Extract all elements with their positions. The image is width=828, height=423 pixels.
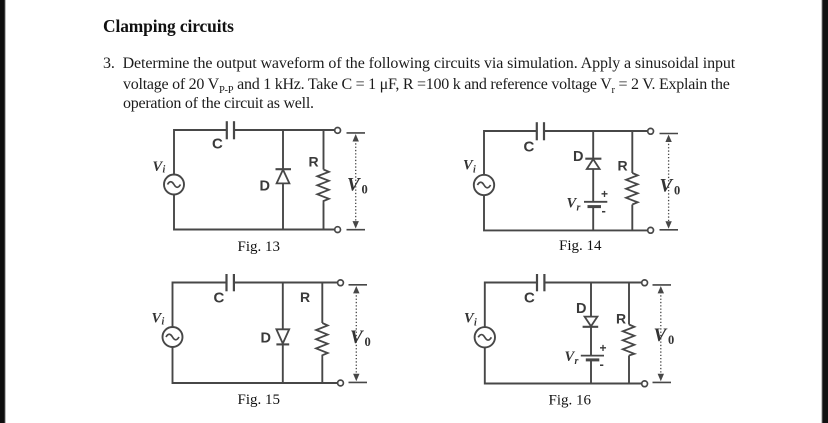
svg-text:D: D <box>260 179 270 195</box>
wire: Fig16 left/top <box>485 283 537 328</box>
terminal bottom (Fig16) <box>642 381 648 387</box>
svg-text:D: D <box>261 330 271 346</box>
wire: Fig14 diode to battery <box>592 169 594 201</box>
terminal bottom (Fig15) <box>338 380 344 386</box>
Vo measure (Fig15) <box>349 284 368 286</box>
wire: Fig13 left/top/bottom loop <box>174 130 226 175</box>
svg-text:0: 0 <box>362 183 368 197</box>
capacitor C (Fig13) <box>226 121 228 139</box>
svg-text:+: + <box>600 341 607 355</box>
wire: Fig13 left lower <box>174 195 335 230</box>
battery Vr (Fig14) <box>584 201 607 203</box>
wire: Fig14 resistor branch lower <box>631 205 633 231</box>
wire: Fig16 cap to terminal <box>545 282 641 284</box>
wire: Fig13 resistor branch upper <box>323 130 325 170</box>
svg-text:i: i <box>162 317 165 328</box>
resistor R (Fig15) <box>316 323 328 360</box>
resistor R (Fig13) <box>317 170 329 204</box>
svg-text:Fig. 13: Fig. 13 <box>238 239 281 255</box>
diode D (Fig14, pointing up) <box>585 158 601 160</box>
svg-text:0: 0 <box>365 335 371 349</box>
svg-text:0: 0 <box>674 184 680 198</box>
wire: Fig16 diode to battery <box>590 327 592 355</box>
paragraph line 2 <box>123 76 730 96</box>
capacitor C (Fig16) <box>536 274 538 291</box>
left black bar <box>0 0 6 423</box>
wire: Fig13 diode branch lower <box>282 183 284 229</box>
resistor R (Fig14) <box>626 173 638 205</box>
wire: Fig14 battery to bottom <box>592 207 594 230</box>
wire: Fig15 resistor branch upper <box>321 283 323 324</box>
terminal bottom (Fig14) <box>648 227 654 233</box>
source Vi (Fig15) <box>163 327 183 347</box>
svg-text:R: R <box>616 310 626 326</box>
svg-text:r: r <box>577 203 581 214</box>
svg-text:V: V <box>654 325 668 346</box>
svg-text:Fig. 14: Fig. 14 <box>559 238 602 254</box>
paragraph line 3 <box>123 95 314 113</box>
svg-text:-: - <box>600 357 604 372</box>
source Vi (Fig13) <box>164 175 184 195</box>
wire: Fig16 bottom <box>485 348 642 384</box>
svg-text:i: i <box>163 165 166 176</box>
wire: Fig16 resistor branch lower <box>628 356 630 384</box>
wire: Fig15 bottom <box>173 347 338 383</box>
source Vi (Fig14) <box>474 175 494 195</box>
terminal top (Fig16) <box>642 280 648 286</box>
diode D (Fig15, pointing down) <box>276 329 289 343</box>
capacitor C (Fig15) <box>225 274 227 291</box>
svg-text:0: 0 <box>668 333 674 347</box>
wire: Fig14 cap to terminal <box>545 130 648 132</box>
svg-text:C: C <box>214 289 225 306</box>
Vo measure (Fig16) <box>653 284 672 286</box>
wire: Fig15 diode branch lower <box>282 344 284 383</box>
svg-text:Fig. 15: Fig. 15 <box>238 392 281 408</box>
wire: Fig14 resistor branch upper <box>631 131 633 173</box>
svg-text:+: + <box>601 187 608 201</box>
svg-text:C: C <box>524 289 535 306</box>
wire: Fig16 battery to bottom <box>590 360 592 383</box>
title <box>103 16 234 37</box>
svg-text:-: - <box>602 203 606 218</box>
svg-text:V: V <box>347 175 361 196</box>
wire: Fig14 bottom <box>484 195 648 230</box>
svg-text:R: R <box>618 158 628 174</box>
wire: Fig13 resistor branch lower <box>323 204 325 230</box>
svg-text:D: D <box>576 301 586 317</box>
capacitor C (Fig14) <box>536 122 538 140</box>
wire: Fig14 left/top <box>484 131 536 175</box>
svg-text:V: V <box>660 176 674 197</box>
source Vi (Fig16) <box>475 327 495 347</box>
wire: Fig13 diode branch upper <box>282 130 284 169</box>
Vo measure (Fig14) <box>660 133 679 135</box>
wire: Fig14 diode branch upper <box>592 131 594 159</box>
diode D (Fig16, pointing down) <box>585 317 598 327</box>
wire: Fig15 diode branch upper <box>282 283 284 330</box>
battery Vr (Fig16) <box>581 355 604 357</box>
wire: Fig15 left/top <box>173 283 227 328</box>
terminal top (Fig14) <box>648 128 654 134</box>
diode D (Fig13, pointing up) <box>276 168 292 170</box>
resistor R (Fig16) <box>623 325 635 356</box>
Vo measure (Fig13) <box>347 132 366 134</box>
wire: Fig15 resistor branch lower <box>321 360 323 384</box>
svg-text:D: D <box>573 149 583 165</box>
wire: Fig16 diode branch upper <box>590 283 592 317</box>
svg-text:R: R <box>309 154 319 170</box>
terminal top (Fig13) <box>335 127 341 133</box>
svg-text:i: i <box>473 165 476 176</box>
wire: Fig13 cap to top-right terminal <box>235 129 335 131</box>
wire: Fig16 resistor branch upper <box>628 283 630 325</box>
svg-text:R: R <box>300 289 310 305</box>
paragraph line 1 <box>103 55 735 73</box>
svg-text:C: C <box>524 139 535 156</box>
right black bar <box>821 0 828 423</box>
svg-text:V: V <box>350 327 364 348</box>
svg-text:Fig. 16: Fig. 16 <box>549 393 592 409</box>
terminal bottom (Fig13) <box>335 227 341 233</box>
wire: Fig15 cap to terminal <box>235 282 338 284</box>
terminal top (Fig15) <box>338 280 344 286</box>
svg-text:C: C <box>212 136 223 153</box>
svg-text:i: i <box>474 318 477 329</box>
svg-text:r: r <box>575 356 579 367</box>
